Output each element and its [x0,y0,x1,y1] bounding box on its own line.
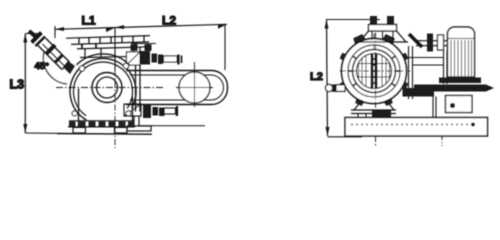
stadium pump body [126,71,228,105]
casing cover bolts [79,63,128,71]
junction flange verticals [136,65,141,112]
stadium inner wall lines [130,75,224,100]
bearing hub inner [97,77,118,98]
sight glass circle [357,54,392,89]
center stem [371,53,378,89]
centerline below base right [441,136,443,146]
middle ring [348,45,400,97]
casing top flange [66,36,150,58]
svg-text:45°: 45° [35,61,50,72]
45 degree inlet pipe body [38,38,75,74]
horizontal centerline right figure [340,70,410,72]
svg-text:L2: L2 [310,71,323,83]
motor body [448,27,475,77]
inner ring [353,50,396,93]
dimension line L2 right figure [325,20,381,137]
casing lower housing box [79,89,133,128]
svg-text:L3: L3 [10,78,25,92]
bottom pedestal [351,100,396,118]
casing volute middle arc [70,59,136,121]
top port flange [358,16,408,42]
motor lower dark band [439,78,481,84]
casing volute inner arc [74,62,133,116]
hatch lines inside glass [359,56,390,87]
left suction stub [325,84,345,91]
dimension line L3 left [23,34,78,134]
45 degree inlet pipe flange [29,31,45,46]
sight glass grid horizontals [359,64,390,78]
bracket feet under motor [403,88,437,117]
svg-text:L1: L1 [82,14,96,28]
fittings above stadium [127,44,182,66]
fittings below stadium [124,104,177,118]
motor support bracket verticals [444,50,448,84]
horizontal centerline [56,87,163,89]
base line [57,133,152,136]
pipe bore line [43,44,66,67]
base plate [345,118,488,137]
support bracket below [127,116,205,131]
motor shaft and coupling [409,34,447,52]
flange bolt ticks [348,56,401,86]
vertical centerline right figure [374,21,376,146]
motor rail with pointed end [414,85,494,92]
pump main circle outer [342,39,407,104]
casing volute outer arc [77,54,130,65]
svg-text:L2: L2 [162,14,176,28]
flange lugs around circle [339,33,409,106]
casing bottom flange [68,111,135,133]
extension line right of L2 [224,25,226,70]
dimension line L1-L2 top [55,24,227,38]
bearing circle on stadium [176,62,213,107]
terminal box [446,96,473,113]
bearing hub outer [92,73,122,103]
angle dimension arc [43,52,67,84]
centerline vertical through casing flange [114,28,116,70]
